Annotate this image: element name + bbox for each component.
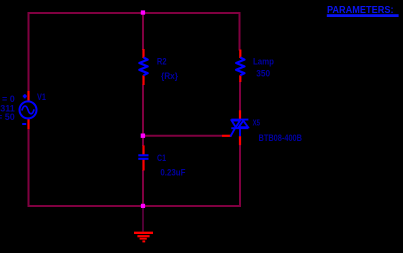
wire: middle branch R2 to mid junction [142, 85, 144, 137]
svg-text:R2: R2 [157, 57, 167, 67]
voltage source V1 body [20, 101, 37, 118]
wire: gate horizontal from mid junction [143, 135, 222, 137]
wire: middle branch mid junction to C1 [142, 136, 144, 147]
node: bottom junction [141, 204, 145, 208]
svg-text:VOFF = 0: VOFF = 0 [0, 94, 15, 104]
wire: left vertical (V1 to bottom) [28, 130, 30, 208]
svg-text:Lamp: Lamp [253, 57, 274, 67]
voltage source V1 pins [27, 91, 29, 102]
wire: top horizontal [29, 12, 241, 14]
wire: middle branch top (junction to R2) [142, 13, 144, 50]
svg-text:X5: X5 [253, 119, 261, 128]
svg-text:0.23uF: 0.23uF [160, 168, 185, 178]
resistor R2 body [139, 58, 147, 76]
resistor Lamp pins [239, 50, 241, 59]
triac X5 pins [239, 110, 241, 119]
svg-text:{Rx}: {Rx} [161, 71, 178, 81]
wire: left vertical (top section to V1) [28, 12, 30, 92]
triac X5 body [230, 120, 248, 137]
wire: right vertical top (to Lamp) [239, 12, 241, 51]
wire: middle branch C1 to bottom [142, 170, 144, 206]
resistor Lamp body [236, 58, 244, 76]
ground [134, 233, 153, 242]
wire: ground stub [142, 206, 144, 232]
svg-text:350: 350 [256, 69, 270, 79]
capacitor C1 body [138, 154, 148, 156]
PARAMETERS underline [327, 14, 399, 17]
node: middle junction [141, 134, 145, 138]
wire: bottom horizontal [29, 205, 241, 207]
wire: right vertical triac to bottom [239, 145, 241, 208]
voltage source V1 minus sign [22, 123, 26, 125]
svg-text:V1: V1 [37, 92, 46, 102]
wire: right vertical Lamp to triac [239, 82, 241, 112]
resistor R2 pins [142, 49, 144, 58]
svg-text:FREQ = 50: FREQ = 50 [0, 112, 15, 122]
node: top junction [141, 10, 145, 14]
voltage source V1 plus sign [23, 94, 27, 98]
capacitor C1 pins [142, 145, 144, 154]
svg-text:BTB08-400B: BTB08-400B [259, 133, 303, 143]
svg-text:C1: C1 [157, 153, 166, 163]
